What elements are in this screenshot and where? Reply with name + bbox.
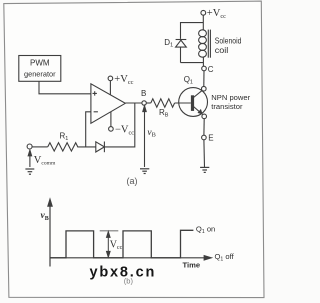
op-amp U1 [91,84,125,124]
svg-text:transistor: transistor [211,102,243,111]
svg-text:Time: Time [183,260,201,269]
svg-text:Q1 on: Q1 on [196,224,215,234]
Vcc dimension extension line [100,230,119,232]
node C [202,66,207,71]
wire node B to resistor RB [146,102,151,104]
ground (vB) [140,169,149,174]
+Vcc supply terminal [201,10,206,15]
ground (Vcomm) [25,169,34,174]
vB measurement arrow at node B [143,106,146,167]
solenoid coil [199,30,211,67]
svg-text:PWM: PWM [30,59,50,68]
wire emitter to node E [203,119,205,136]
wire diode to R1 and feedback junction [80,146,96,148]
svg-text:Solenoid: Solenoid [215,37,242,46]
wire PWM output to op-amp + input [39,81,91,94]
wire diode bottom to coil bottom [181,62,204,64]
svg-text:C: C [208,65,214,74]
Vcomm voltage arrow [28,150,31,167]
resistor RB [151,99,175,107]
Vcomm terminal [32,146,48,148]
node B [142,101,146,105]
wire op-amp output to node B [125,102,142,104]
svg-text:(b): (b) [124,276,134,285]
wire node E to ground [203,140,206,168]
+Vcc terminal of op-amp [108,76,113,95]
svg-text:generator: generator [24,70,56,79]
PWM generator box [19,56,61,82]
Vcc dimension arrow [107,232,111,258]
wire +Vcc down to coil [202,15,204,30]
node E [202,135,207,140]
square wave vB [50,230,193,257]
svg-text:coil: coil [215,46,229,55]
waveform y-axis (vB) [48,199,52,266]
svg-text:(a): (a) [127,176,138,186]
svg-text:ybx8.cn: ybx8.cn [90,264,157,280]
wire RB to transistor base [175,102,191,104]
wire node C to collector [203,71,205,87]
resistor R1 [48,143,80,151]
ground (emitter) [200,167,209,172]
svg-text:NPN power: NPN power [211,93,250,102]
-Vcc terminal of op-amp [109,112,114,131]
svg-text:Q1 off: Q1 off [215,252,235,262]
transistor Q1 [179,88,208,117]
feedback wire up to op-amp inverting input [86,112,91,147]
feedback diode [96,142,105,153]
wire branch to diode D1 [181,23,204,39]
waveform x-axis (Time) [50,256,211,260]
svg-text:E: E [208,134,213,143]
diode D1 [176,40,187,63]
svg-text:B: B [141,89,146,98]
feedback wire from output junction down [104,103,134,147]
